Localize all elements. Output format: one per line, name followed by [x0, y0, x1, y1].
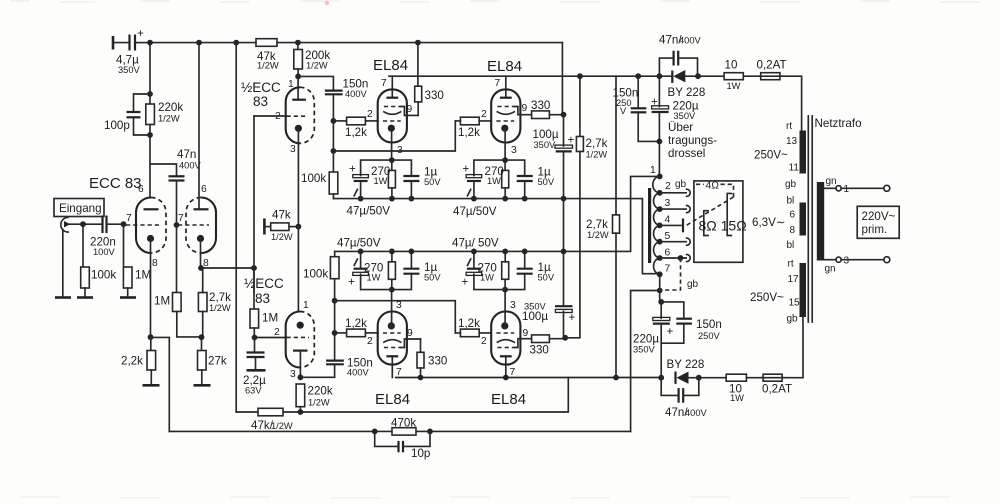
capacitor C 4.7u 350V with ground bar — [113, 27, 150, 75]
svg-text:+: + — [568, 134, 575, 147]
svg-text:7: 7 — [665, 264, 671, 275]
node lower screen bus — [562, 335, 568, 341]
svg-text:13: 13 — [786, 136, 798, 147]
node rail 47u u2 — [471, 196, 477, 202]
svg-text:7: 7 — [178, 213, 184, 224]
svg-text:+: + — [462, 276, 469, 289]
speaker selector box — [694, 181, 747, 262]
node anode V1 bottom — [147, 132, 153, 138]
svg-text:100k: 100k — [301, 172, 326, 185]
wire bias riser (top rail to line A) — [235, 43, 237, 412]
resistor 2.7k 1/2W upper — [565, 73, 607, 338]
svg-text:7: 7 — [381, 78, 387, 89]
capacitor 150n 400V coupling lower — [300, 301, 372, 378]
node top rail A — [147, 40, 153, 46]
svg-text:17: 17 — [788, 274, 800, 285]
node divider top — [251, 265, 257, 271]
svg-text:400V: 400V — [685, 408, 708, 418]
triode V1 ECC83a — [126, 184, 166, 337]
svg-text:gb: gb — [675, 179, 687, 190]
svg-text:3: 3 — [511, 145, 517, 156]
ground input sleeve — [55, 296, 71, 299]
node diode out upper — [695, 73, 701, 79]
node grid rail upper — [331, 148, 337, 154]
svg-text:7: 7 — [510, 367, 516, 378]
node 330 l1 bottom — [418, 375, 424, 381]
wire V2 cathode to divider — [201, 267, 255, 269]
svg-text:50V: 50V — [538, 273, 555, 283]
svg-text:220V~: 220V~ — [862, 210, 896, 223]
resistor 270 1W u2 — [504, 160, 506, 170]
capacitor 1u 50V l2 — [505, 274, 525, 289]
node rail 1u l1 — [409, 249, 415, 255]
svg-text:1,2k: 1,2k — [458, 126, 480, 139]
svg-text:350V: 350V — [118, 65, 141, 75]
svg-text:100k: 100k — [91, 269, 116, 282]
svg-text:9: 9 — [523, 328, 529, 339]
svg-text:1,2k: 1,2k — [345, 126, 367, 139]
node cathodyne center — [296, 224, 302, 230]
svg-text:+: + — [667, 325, 674, 338]
capacitor 150n 250V lower — [661, 302, 722, 343]
node diode in lower — [658, 375, 664, 381]
svg-text:1/2W: 1/2W — [257, 61, 279, 71]
svg-text:1/2W: 1/2W — [271, 421, 293, 431]
svg-text:83: 83 — [253, 94, 268, 109]
resistor 10 1W upper — [698, 59, 743, 92]
capacitor 1u 50V l1 — [392, 274, 412, 289]
node anode ECC upper — [295, 74, 301, 80]
svg-text:1W: 1W — [367, 273, 381, 283]
node cathode u2 — [502, 157, 508, 163]
svg-text:2: 2 — [367, 109, 373, 120]
node V2 cathode — [198, 265, 204, 271]
pentode EL84 u2 — [481, 76, 532, 160]
resistor 27k — [198, 337, 227, 384]
svg-text:3: 3 — [290, 369, 296, 380]
capacitor 220n 100V — [90, 216, 124, 258]
node V2 grid feed — [174, 222, 180, 228]
svg-text:47k: 47k — [272, 209, 291, 222]
capacitor 47n/400V upper (diode bypass) — [659, 34, 702, 77]
node 150n-220u join — [657, 139, 663, 145]
svg-text:1,2k: 1,2k — [345, 317, 367, 330]
svg-text:250V~: 250V~ — [750, 291, 784, 304]
node rail 270 l2 — [502, 249, 508, 255]
wire V2 grid riser — [253, 116, 255, 268]
svg-text:47n: 47n — [177, 148, 196, 161]
svg-text:470k: 470k — [391, 417, 416, 430]
ground 1M — [120, 296, 136, 299]
triode U upper half ECC83 — [275, 76, 314, 311]
node screen bus — [561, 112, 567, 118]
svg-text:250V~: 250V~ — [754, 149, 788, 162]
wire top rail — [150, 42, 256, 44]
node rail 1u u1 — [409, 196, 415, 202]
svg-text:50V: 50V — [538, 177, 555, 187]
svg-text:2: 2 — [665, 181, 671, 192]
node rail 270 u1 — [389, 196, 395, 202]
node grid rail lower — [332, 298, 338, 304]
resistor 330 screen l2 — [530, 335, 566, 357]
svg-text:330: 330 — [531, 99, 550, 112]
svg-text:50V: 50V — [424, 177, 441, 187]
svg-text:400V: 400V — [347, 368, 370, 378]
node rail 47u l2 — [471, 249, 477, 255]
node grid L — [252, 335, 258, 341]
svg-text:rt: rt — [786, 121, 792, 132]
resistor 1M grid V1 — [123, 224, 151, 296]
wire grid U upper — [254, 115, 287, 117]
svg-text:350V: 350V — [534, 140, 557, 150]
capacitor 10p — [375, 431, 431, 460]
svg-text:6: 6 — [790, 210, 796, 221]
svg-text:250V: 250V — [698, 331, 721, 341]
svg-text:3: 3 — [290, 144, 296, 155]
node plate L — [298, 374, 304, 380]
svg-text:9: 9 — [407, 104, 413, 115]
svg-text:9: 9 — [522, 103, 528, 114]
svg-text:EL84: EL84 — [487, 58, 522, 75]
choke core bar — [648, 188, 651, 263]
svg-text:3: 3 — [397, 145, 403, 156]
svg-text:gb: gb — [785, 179, 797, 190]
node rail 1u l2 — [522, 249, 528, 255]
node rail 270 l1 — [389, 249, 395, 255]
wire choke bottom to lower caps — [659, 291, 661, 302]
resistor 1.2k grid EL84 u1 — [333, 117, 378, 139]
ground 2.2k — [143, 384, 160, 387]
svg-text:330: 330 — [530, 344, 549, 357]
svg-text:6: 6 — [665, 248, 671, 259]
node grid bus upper — [331, 118, 337, 124]
node 200k top — [295, 40, 301, 46]
resistor 270 1W l1 — [391, 279, 393, 289]
svg-text:1/2W: 1/2W — [587, 230, 609, 240]
trafo winding 6.3V — [752, 196, 806, 252]
svg-text:47µ/50V: 47µ/50V — [347, 205, 391, 218]
node anode V1 top — [147, 91, 153, 97]
wire fuse to trafo lower — [782, 317, 803, 378]
resistor 2.7k 1/2W lower — [586, 76, 620, 377]
node top rail B — [196, 40, 202, 46]
pentode EL84 l2 — [481, 290, 532, 378]
svg-text:1/2W: 1/2W — [586, 150, 608, 160]
cathode network u2 — [453, 157, 555, 218]
node cathode l1 — [389, 287, 395, 293]
node rail 47u l1 — [358, 249, 364, 255]
svg-text:100p: 100p — [104, 119, 130, 132]
svg-text:1W: 1W — [730, 393, 744, 403]
node choke pin1 — [657, 174, 663, 180]
svg-text:1W: 1W — [374, 176, 388, 186]
svg-text:drossel: drossel — [668, 147, 705, 160]
svg-text:330: 330 — [425, 89, 444, 102]
svg-text:+: + — [349, 163, 356, 176]
svg-text:220k: 220k — [158, 101, 183, 114]
resistor 47k/1/2W line A — [251, 408, 293, 432]
capacitor 100p parallel 220k — [104, 94, 150, 135]
capacitor 150n 400V coupling upper — [298, 76, 368, 151]
resistor 100k grid leak lower — [303, 251, 339, 300]
svg-text:47µ/50V: 47µ/50V — [453, 205, 497, 218]
svg-text:63V: 63V — [245, 386, 262, 396]
node V1 cathode junction — [148, 334, 154, 340]
node grid V1 — [121, 221, 127, 227]
svg-text:1W: 1W — [727, 81, 741, 91]
svg-text:10p: 10p — [411, 447, 430, 460]
svg-text:Eingang: Eingang — [59, 202, 102, 215]
svg-text:0,2AT: 0,2AT — [757, 59, 787, 72]
svg-text:400V: 400V — [679, 36, 702, 46]
svg-text:EL84: EL84 — [375, 391, 410, 408]
capacitor 2.2u 63V with ground bar — [243, 338, 266, 396]
resistor 1M grid L — [250, 268, 278, 338]
svg-text:1,2k: 1,2k — [458, 317, 480, 330]
svg-text:bl: bl — [787, 240, 795, 251]
svg-text:100k: 100k — [303, 268, 328, 281]
node input — [80, 221, 86, 227]
resistor 330 screen l1 — [417, 339, 447, 378]
fuse 0.2AT lower — [746, 374, 792, 395]
resistor 220k 1/2W anode load V1 — [146, 43, 184, 197]
pentode EL84 u1 — [367, 76, 418, 160]
cathode network l2 — [452, 237, 555, 293]
svg-text:BY 228: BY 228 — [668, 86, 706, 99]
svg-text:7: 7 — [396, 367, 402, 378]
wire top rail right — [277, 42, 562, 44]
ground 100k — [77, 296, 93, 299]
svg-text:3: 3 — [510, 300, 516, 311]
svg-text:tragungs-: tragungs- — [668, 134, 717, 147]
capacitor 47u/50V u1 — [361, 160, 392, 175]
svg-text:47µ/ 50V: 47µ/ 50V — [452, 237, 499, 250]
wire lower anode line — [396, 377, 662, 379]
svg-text:5: 5 — [665, 231, 671, 242]
svg-text:rt: rt — [788, 259, 794, 270]
wire lower cathode rail — [335, 176, 660, 251]
capacitor 150n 250V upper — [613, 73, 659, 141]
wire anode line upper — [389, 75, 672, 77]
svg-text:7: 7 — [126, 213, 132, 224]
svg-text:gn: gn — [826, 176, 837, 187]
resistor 100k grid leak upper — [301, 151, 338, 199]
svg-text:4: 4 — [665, 215, 671, 226]
ground 27k — [194, 384, 211, 387]
node 2.7k lower bottom — [613, 375, 619, 381]
svg-text:2,7k: 2,7k — [586, 137, 608, 150]
resistor 200k 1/2W — [294, 43, 331, 77]
resistor 1M (47n chain) — [154, 225, 201, 337]
svg-text:150n: 150n — [696, 318, 722, 331]
svg-text:11: 11 — [789, 163, 800, 174]
svg-text:9: 9 — [407, 328, 413, 339]
svg-text:8: 8 — [152, 258, 158, 269]
wire line A bias rail — [236, 378, 568, 413]
choke taps — [657, 190, 686, 277]
svg-text:gb: gb — [687, 279, 699, 290]
svg-text:2: 2 — [274, 327, 280, 338]
svg-text:100µ: 100µ — [522, 310, 548, 323]
svg-text:6: 6 — [201, 184, 207, 195]
capacitor 100u 350V upper — [533, 115, 575, 199]
capacitor 47u/50V l2 — [474, 274, 505, 289]
svg-text:ECC 83: ECC 83 — [89, 175, 142, 192]
svg-text:2: 2 — [367, 336, 373, 347]
svg-text:bl: bl — [787, 196, 795, 207]
resistor 470k — [391, 417, 416, 436]
svg-text:Netztrafo: Netztrafo — [815, 117, 862, 130]
svg-text:3: 3 — [844, 256, 850, 267]
input jack connector — [61, 217, 101, 296]
resistor 1.2k grid EL84 l2 — [455, 317, 491, 337]
wire fuse to trafo upper — [780, 76, 802, 130]
svg-text:+: + — [348, 276, 355, 289]
node 27k top — [199, 334, 205, 340]
capacitor 1u 50V u1 — [392, 160, 412, 175]
trafo primary winding — [817, 182, 824, 261]
triode V2 ECC83b — [178, 43, 216, 269]
resistor 2.2k cathode V1 — [121, 337, 156, 384]
svg-text:V: V — [620, 106, 627, 116]
svg-text:15: 15 — [789, 298, 801, 309]
svg-text:1: 1 — [844, 184, 850, 195]
trafo core double line — [808, 116, 812, 322]
svg-text:1: 1 — [303, 300, 309, 311]
dashed 4ohm link — [685, 181, 734, 227]
svg-text:7: 7 — [495, 78, 501, 89]
svg-text:EL84: EL84 — [491, 391, 526, 408]
capacitor 220u 350V upper — [651, 73, 699, 176]
resistor 270 1W u1 — [391, 160, 393, 170]
primary terminal 3 — [824, 256, 890, 275]
label Eingang box — [54, 199, 104, 217]
svg-text:50V: 50V — [424, 273, 441, 283]
svg-text:gb: gb — [787, 314, 799, 325]
svg-text:400V: 400V — [345, 89, 368, 99]
node cathode l2 — [502, 287, 508, 293]
resistor 1.2k grid EL84 u2 — [455, 117, 491, 139]
wire feedback line — [169, 430, 630, 432]
resistor 10 1W lower — [699, 374, 747, 403]
diode BY228 upper — [668, 70, 706, 99]
resistor 100k input — [81, 224, 117, 296]
svg-text:gn: gn — [825, 264, 836, 275]
node diode out lower — [696, 375, 702, 381]
svg-text:3: 3 — [396, 300, 402, 311]
dashed gb stub tap6 — [662, 255, 699, 290]
svg-text:83: 83 — [255, 291, 270, 306]
svg-text:350V: 350V — [633, 345, 656, 355]
svg-text:220k: 220k — [308, 385, 333, 398]
svg-text:1W: 1W — [480, 273, 494, 283]
wire screen bus riser — [561, 43, 563, 115]
node rail 1u u2 — [522, 196, 528, 202]
svg-text:400V: 400V — [179, 161, 202, 171]
node tap7 out — [657, 288, 663, 294]
svg-text:1W: 1W — [487, 176, 501, 186]
node 220k bottom — [298, 409, 304, 415]
capacitor 1u 50V u2 — [505, 160, 525, 175]
tap sockets — [687, 189, 691, 261]
capacitor 100u 350V lower — [522, 251, 576, 337]
wire grid rail lower — [335, 301, 456, 333]
svg-text:+: + — [463, 163, 470, 176]
svg-text:47µ/50V: 47µ/50V — [337, 237, 381, 250]
wire grid rail upper — [333, 121, 455, 151]
svg-text:2: 2 — [481, 109, 487, 120]
svg-text:½ECC: ½ECC — [241, 80, 281, 95]
node 100u upper rail — [561, 196, 567, 202]
svg-text:1/2W: 1/2W — [271, 232, 293, 242]
capacitor 47n 400V (V1 anode to V2 grid) — [150, 148, 202, 225]
resistor 1.2k grid EL84 l1 — [335, 317, 378, 337]
wire feedback riser from gb node — [631, 291, 660, 432]
svg-text:100V: 100V — [93, 247, 116, 257]
svg-text:6: 6 — [138, 184, 144, 195]
svg-text:1M: 1M — [154, 295, 170, 308]
resistor 47k 1/2W (top rail) — [256, 39, 279, 71]
svg-text:BY 228: BY 228 — [667, 358, 705, 371]
resistor 270 1W l2 — [504, 279, 506, 289]
capacitor 47u/50V u2 — [474, 160, 505, 175]
node anode l2 — [503, 375, 509, 381]
svg-text:Über: Über — [668, 121, 693, 134]
svg-text:1: 1 — [650, 165, 656, 176]
diode BY228 lower — [667, 358, 705, 384]
node grid bus lower — [332, 330, 338, 336]
choke winding — [650, 165, 671, 275]
wire feedback takeoff — [151, 337, 170, 431]
node lower caps top — [658, 299, 664, 305]
node 100u lower rail — [561, 249, 567, 255]
svg-text:1: 1 — [288, 79, 294, 90]
svg-text:8: 8 — [790, 225, 796, 236]
label 220V prim box — [857, 206, 899, 238]
svg-text:1/2W: 1/2W — [306, 61, 328, 71]
svg-text:0,2AT: 0,2AT — [762, 383, 792, 396]
svg-text:330: 330 — [428, 355, 447, 368]
triode L lower half ECC83 — [274, 300, 314, 380]
svg-text:2,2k: 2,2k — [121, 355, 143, 368]
svg-text:4Ω: 4Ω — [706, 181, 720, 192]
resistor 220k 1/2W plate load L — [296, 384, 333, 412]
wire 100u to lower rail — [563, 199, 565, 252]
node 330 feed — [415, 40, 421, 46]
svg-text:prim.: prim. — [862, 223, 888, 236]
capacitor 47n/400V lower (diode bypass) — [661, 378, 707, 419]
node 470k right — [427, 429, 433, 435]
svg-text:27k: 27k — [208, 355, 227, 368]
svg-text:350V: 350V — [674, 111, 697, 121]
capacitor 220u 350V lower — [633, 302, 674, 378]
trafo winding 250V upper — [754, 121, 806, 190]
pentode EL84 l1 — [367, 290, 421, 378]
svg-text:+: + — [569, 311, 576, 324]
svg-text:1/2W: 1/2W — [158, 114, 180, 124]
svg-text:½ECC: ½ECC — [244, 276, 284, 291]
resistor 47k 1/2W with ground bar — [264, 209, 298, 243]
trafo winding 250V lower — [750, 259, 806, 325]
node 470k left — [372, 429, 378, 435]
cathode network u1 — [347, 157, 442, 217]
cathode network l1 — [337, 237, 441, 293]
svg-text:+: + — [651, 96, 658, 109]
svg-text:1M: 1M — [262, 312, 278, 325]
resistor 2.7k 1/2W — [198, 268, 254, 337]
svg-text:1M: 1M — [135, 269, 151, 282]
svg-text:3: 3 — [665, 198, 671, 209]
